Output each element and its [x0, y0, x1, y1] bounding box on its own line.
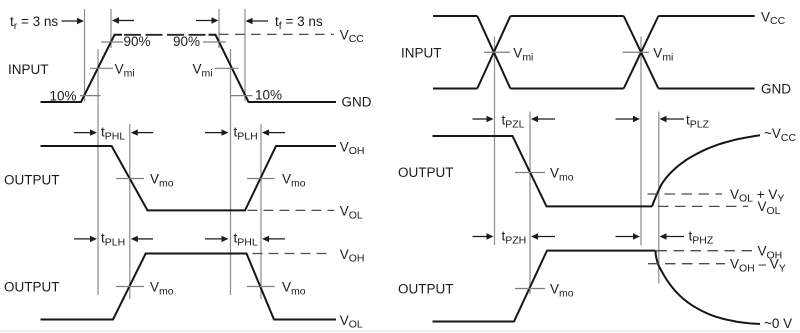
svg-text:Vmo: Vmo	[282, 280, 306, 298]
svg-text:VOL: VOL	[340, 204, 363, 222]
input right: bottom rail	[433, 88, 477, 90]
svg-text:Vmi: Vmi	[653, 46, 673, 64]
svg-text:tPHL: tPHL	[101, 124, 125, 142]
dashed VOH (right)	[657, 250, 754, 252]
arrow tf left	[252, 20, 269, 22]
svg-text:Vmo: Vmo	[150, 280, 174, 298]
output1 right waveform	[433, 136, 653, 206]
arrow tPHZ left	[616, 236, 634, 238]
svg-text:tPZH: tPZH	[502, 229, 527, 247]
svg-text:10%: 10%	[50, 89, 77, 104]
arrow tPLZ left	[616, 118, 634, 120]
svg-text:Vmo: Vmo	[550, 166, 574, 184]
svg-text:INPUT: INPUT	[401, 45, 442, 60]
faint page rule bottom	[0, 330, 800, 332]
svg-text:Vmi: Vmi	[513, 46, 533, 64]
svg-text:VOL: VOL	[340, 313, 363, 331]
svg-text:tPLZ: tPLZ	[686, 112, 710, 130]
svg-text:VOH – VY: VOH – VY	[730, 257, 786, 275]
arrow tPHL-1 right	[131, 129, 138, 135]
arrow 90%-rise left	[118, 20, 134, 22]
timing line Vmo-2 x=261	[260, 124, 262, 299]
tick 90% rise	[101, 41, 123, 43]
svg-text:10%: 10%	[255, 88, 282, 103]
arrow tPZL left	[473, 118, 489, 120]
svg-text:~0 V: ~0 V	[764, 316, 792, 331]
arrow tPLH-2 right	[262, 129, 269, 135]
svg-text:OUTPUT: OUTPUT	[398, 282, 454, 297]
timing line Vmo-1 x=129.8	[129, 124, 131, 299]
svg-text:VCC: VCC	[340, 27, 365, 45]
input right: X crossing 2	[624, 16, 659, 89]
svg-text:GND: GND	[342, 94, 372, 109]
arrow tr right	[62, 20, 79, 22]
tick Vmo right output1	[515, 172, 545, 174]
arrow tPHL-4 right	[262, 236, 269, 242]
svg-text:Vmo: Vmo	[282, 172, 306, 190]
tick Vmo output2 rise	[116, 286, 144, 288]
svg-text:tf = 3 ns: tf = 3 ns	[275, 14, 323, 32]
timing line Vmi-rise x=98	[97, 49, 99, 295]
arrow tPLH-3 left	[74, 238, 91, 240]
timing line 90%-rise x=111	[110, 9, 112, 48]
output1 waveform left	[41, 146, 337, 210]
arrow 90%-fall right	[196, 20, 213, 22]
svg-text:~VCC: ~VCC	[764, 126, 796, 144]
svg-text:VOH: VOH	[340, 247, 365, 265]
tick Vmi fall	[215, 67, 239, 69]
svg-text:tPHZ: tPHZ	[689, 229, 714, 247]
input plateau dashed (VCC level)	[124, 34, 207, 36]
arrow tPHZ right	[660, 233, 667, 239]
tick 10% fall	[231, 95, 253, 97]
svg-text:90%: 90%	[173, 34, 200, 49]
tick Vmi X1	[484, 51, 510, 53]
svg-text:GND: GND	[761, 81, 791, 96]
dashed VOH (output2)	[253, 253, 331, 255]
tick Vmo output1 rise	[247, 178, 275, 180]
output2 right waveform	[433, 251, 656, 322]
input waveform left: baseline, rise, fall	[41, 35, 123, 102]
arrow tPLH-2 left	[205, 132, 222, 134]
svg-text:VCC: VCC	[761, 9, 786, 27]
svg-text:OUTPUT: OUTPUT	[4, 173, 60, 188]
svg-text:tPZL: tPZL	[502, 112, 525, 130]
arrow tPLH-3 right	[131, 236, 138, 242]
tick 10% rise	[80, 95, 101, 97]
dashed line to VCC label	[219, 33, 334, 35]
timing line Vmi-X1 x=494.5	[494, 37, 496, 246]
arrow tPHL-4 left	[205, 238, 222, 240]
arrow tPZH left	[473, 236, 489, 238]
svg-text:tPLH: tPLH	[234, 124, 258, 142]
tick Vmo output1 fall	[116, 178, 144, 180]
svg-text:tr = 3 ns: tr = 3 ns	[10, 14, 58, 32]
dashed VOL+VY	[648, 193, 723, 195]
timing line Vmi-fall x=230.5	[230, 49, 232, 295]
arrow tPLZ right	[660, 116, 667, 122]
arrow tPZL right	[531, 116, 538, 122]
tick Vmo output2 fall	[247, 286, 275, 288]
svg-text:tPLH: tPLH	[101, 231, 125, 249]
svg-text:Vmi: Vmi	[193, 62, 213, 80]
timing line Vmi-X2 x=641	[640, 37, 642, 246]
output2 right exponential decay to ~0V	[656, 251, 761, 324]
arrow tPZH right	[531, 233, 538, 239]
arrow tPHL-1 left	[74, 132, 91, 134]
dashed VOL (right)	[658, 205, 748, 207]
svg-text:OUTPUT: OUTPUT	[4, 280, 60, 295]
timing line VY x=658.8	[658, 112, 660, 284]
input right: top rail	[433, 15, 477, 17]
svg-text:90%: 90%	[124, 34, 151, 49]
svg-text:Vmo: Vmo	[150, 172, 174, 190]
svg-text:Vmo: Vmo	[550, 282, 574, 300]
svg-text:VOH: VOH	[340, 139, 365, 157]
tick 90% fall	[203, 41, 226, 43]
svg-text:Vmi: Vmi	[115, 62, 135, 80]
tick Vmi X2	[623, 51, 650, 53]
output2 waveform left	[41, 254, 337, 320]
svg-text:OUTPUT: OUTPUT	[398, 165, 454, 180]
timing line 90%-fall x=219	[218, 9, 220, 48]
output1 right exponential rise to ~VCC	[652, 135, 760, 206]
tick Vmi rise	[90, 67, 113, 69]
dashed VOH-VY	[648, 263, 725, 265]
dashed VOL (output1)	[248, 209, 335, 211]
svg-text:tPHL: tPHL	[234, 231, 258, 249]
timing line 10%-fall x=245	[244, 9, 246, 101]
timing line Vmo-right x=530	[529, 112, 531, 295]
svg-text:INPUT: INPUT	[8, 62, 49, 77]
tick Vmo right output2	[515, 288, 545, 290]
input right: X crossing 1	[477, 16, 510, 89]
timing line 10%-rise x=84.5	[84, 9, 86, 101]
